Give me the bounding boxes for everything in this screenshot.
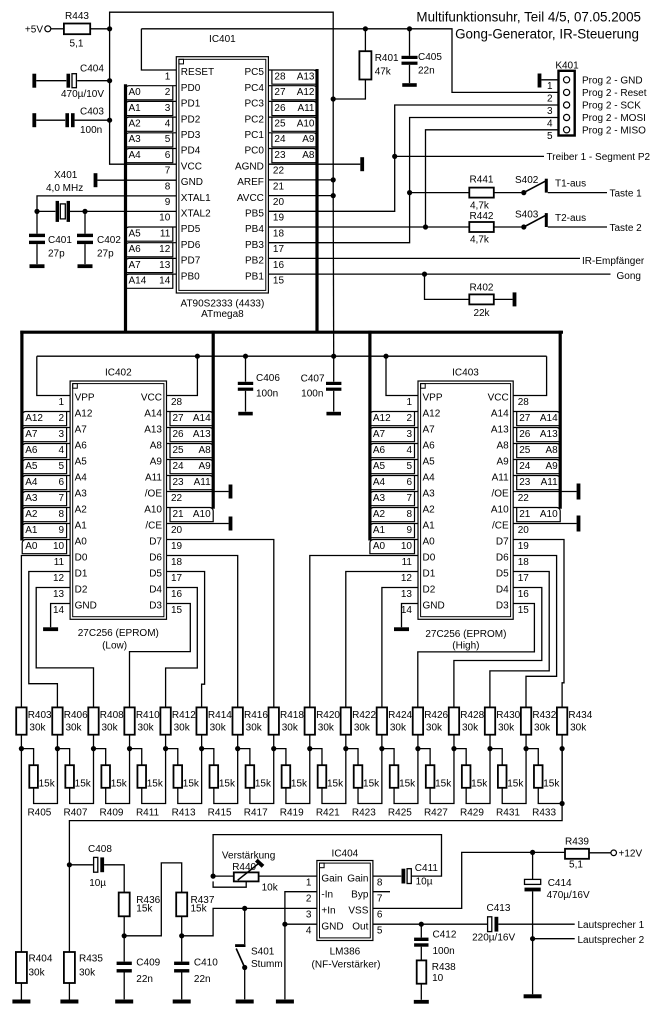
- svg-text:27: 27: [519, 413, 531, 424]
- svg-text:15: 15: [273, 276, 285, 287]
- svg-text:A8: A8: [496, 441, 509, 452]
- svg-text:A6: A6: [25, 445, 38, 456]
- pin 7 IC403 A3: [370, 489, 435, 506]
- IC body IC404: [317, 861, 373, 941]
- wire AVCC pin20: [268, 195, 333, 197]
- svg-text:2: 2: [59, 413, 65, 424]
- svg-text:6: 6: [59, 477, 65, 488]
- pin 27 IC403 A14: [491, 409, 560, 426]
- svg-text:19: 19: [171, 541, 183, 552]
- svg-text:3: 3: [59, 429, 65, 440]
- pin 6 IC404 VSS: [348, 905, 383, 920]
- svg-text:8: 8: [59, 509, 65, 520]
- bus bar IC402 left: [20, 331, 23, 541]
- switch S402 T1-aus: [515, 175, 586, 195]
- wire Taste 2: [548, 226, 607, 228]
- resistor R402: [425, 274, 517, 319]
- svg-text:A4: A4: [423, 473, 436, 484]
- resistor R423 15k: [346, 749, 382, 819]
- svg-text:R402: R402: [470, 282, 494, 293]
- pin 19 IC401 PB5: [245, 209, 284, 224]
- svg-text:25: 25: [519, 445, 531, 456]
- wire VCC IC403 pin28: [513, 356, 546, 395]
- pin 3 IC401 PD1: [126, 99, 201, 116]
- svg-text:15k: 15k: [147, 778, 164, 789]
- resistor R428 30k: [449, 707, 485, 748]
- svg-text:R410: R410: [136, 710, 160, 721]
- resistor R429 15k: [454, 749, 490, 819]
- svg-text:14: 14: [53, 605, 65, 616]
- resistor R412 30k: [160, 707, 196, 748]
- wire EPROM +5V rail: [37, 355, 547, 357]
- svg-text:15k: 15k: [75, 778, 92, 789]
- svg-text:D2: D2: [75, 585, 88, 596]
- svg-text:30k: 30k: [390, 722, 407, 733]
- svg-text:1: 1: [306, 878, 312, 889]
- svg-text:19: 19: [273, 213, 285, 224]
- capacitor C403: [32, 107, 109, 137]
- svg-text:Lautsprecher 2: Lautsprecher 2: [578, 935, 645, 946]
- svg-text:C404: C404: [80, 64, 104, 75]
- svg-text:A10: A10: [297, 119, 315, 130]
- wire D3 High to R426: [418, 604, 535, 708]
- svg-text:15k: 15k: [543, 778, 560, 789]
- wire PB5/SCK to K401 pin3: [268, 105, 558, 211]
- svg-text:4: 4: [165, 119, 171, 130]
- svg-text:R420: R420: [316, 710, 340, 721]
- svg-text:10: 10: [159, 213, 171, 224]
- pin 24 IC403 A9: [496, 457, 560, 474]
- svg-text:+5V: +5V: [25, 25, 43, 36]
- node ladder junction 16: [560, 746, 565, 751]
- svg-text:24: 24: [173, 461, 185, 472]
- svg-text:15: 15: [171, 605, 183, 616]
- resistor R413 15k: [166, 749, 202, 819]
- svg-text:A6: A6: [423, 441, 436, 452]
- svg-text:R413: R413: [172, 807, 196, 818]
- svg-text:A11: A11: [145, 473, 162, 484]
- svg-text:/OE: /OE: [145, 489, 163, 500]
- svg-text:C406: C406: [256, 373, 280, 384]
- svg-text:/CE: /CE: [145, 521, 162, 532]
- pin 21 IC401 AREF: [237, 177, 284, 192]
- node ladder junction 13: [451, 746, 456, 751]
- pin 11 IC403 D0: [402, 553, 436, 568]
- svg-text:24: 24: [519, 461, 531, 472]
- wire GND pin4: [285, 923, 317, 925]
- svg-text:PD1: PD1: [181, 99, 201, 110]
- svg-text:IR-Empfänger: IR-Empfänger: [582, 256, 645, 267]
- svg-text:A12: A12: [75, 409, 93, 420]
- svg-text:PB1: PB1: [245, 271, 264, 282]
- svg-text:C402: C402: [97, 235, 121, 246]
- resistor R421 15k: [310, 749, 346, 819]
- svg-text:R423: R423: [352, 807, 376, 818]
- pin 20 IC403 /CE: [492, 521, 529, 536]
- svg-text:A1: A1: [373, 525, 386, 536]
- pin 26 IC403 A13: [491, 425, 560, 442]
- wire +5V down to VCC pin7: [110, 29, 177, 164]
- resistor R406 30k: [52, 707, 88, 748]
- resistor R434 30k: [557, 707, 593, 748]
- svg-text:PC5: PC5: [244, 67, 264, 78]
- svg-text:A6: A6: [75, 441, 88, 452]
- resistor R405 15k: [21, 749, 57, 819]
- ground IC404 pins 2,4: [284, 924, 286, 999]
- svg-text:25: 25: [274, 119, 286, 130]
- svg-text:Gain: Gain: [321, 873, 342, 884]
- wire D6 Low to R416: [167, 556, 238, 708]
- svg-text:D1: D1: [423, 569, 436, 580]
- bus bar IC401 left (A0-A14): [124, 84, 127, 333]
- resistor R416 30k: [232, 707, 268, 748]
- pin 6 IC401 PD4: [126, 146, 201, 163]
- svg-text:VSS: VSS: [348, 905, 368, 916]
- svg-text:C401: C401: [48, 235, 72, 246]
- pin 15 IC401 PB1: [245, 271, 284, 286]
- svg-text:A14: A14: [144, 409, 162, 420]
- svg-text:30k: 30k: [498, 722, 515, 733]
- svg-text:AGND: AGND: [235, 161, 264, 172]
- svg-text:R406: R406: [64, 710, 88, 721]
- svg-text:5: 5: [59, 461, 65, 472]
- pin 22 IC403 /OE: [491, 489, 529, 504]
- resistor R426 30k: [413, 707, 449, 748]
- capacitor C413: [472, 903, 515, 944]
- svg-text:A14: A14: [129, 276, 147, 287]
- svg-text:A8: A8: [545, 445, 558, 456]
- svg-text:A0: A0: [129, 87, 142, 98]
- svg-text:Prog 2 - GND: Prog 2 - GND: [582, 75, 643, 86]
- svg-text:PC4: PC4: [244, 83, 264, 94]
- resistor R432 30k: [521, 707, 557, 748]
- pin 28 IC403 VCC: [488, 393, 530, 408]
- svg-text:13: 13: [401, 589, 413, 600]
- pin 10 IC402 A0: [22, 537, 87, 554]
- svg-text:A2: A2: [129, 119, 142, 130]
- svg-text:A12: A12: [373, 413, 391, 424]
- wire D7 Low to R418: [167, 540, 274, 708]
- node C408 tap: [67, 862, 72, 867]
- svg-text:A3: A3: [25, 493, 38, 504]
- svg-text:R417: R417: [244, 807, 268, 818]
- resistor R433 15k: [526, 749, 562, 819]
- svg-text:17: 17: [171, 573, 183, 584]
- svg-text:Multifunktionsuhr, Teil 4/5, 0: Multifunktionsuhr, Teil 4/5, 07.05.2005: [416, 10, 641, 25]
- IC body IC401: [176, 57, 268, 293]
- svg-text:4,0 MHz: 4,0 MHz: [46, 183, 83, 194]
- svg-text:10: 10: [432, 973, 444, 984]
- pin 12 IC401 PD6: [126, 240, 201, 257]
- svg-text:A6: A6: [373, 445, 386, 456]
- resistor R425 15k: [382, 749, 418, 819]
- svg-text:C412: C412: [433, 930, 457, 941]
- svg-text:7: 7: [59, 493, 65, 504]
- svg-text:C403: C403: [80, 107, 104, 118]
- svg-text:A14: A14: [540, 413, 558, 424]
- svg-text:R415: R415: [208, 807, 232, 818]
- node ladder junction 12: [415, 746, 420, 751]
- svg-text:220µ/16V: 220µ/16V: [472, 933, 515, 944]
- wire PB1 Gong: [268, 273, 610, 275]
- svg-text:30k: 30k: [462, 722, 479, 733]
- bus bar IC403 left: [368, 331, 371, 541]
- svg-text:26: 26: [274, 103, 286, 114]
- wire +5V down to EPROM rail: [332, 196, 335, 357]
- resistor R427 15k: [418, 749, 454, 819]
- svg-text:30k: 30k: [101, 722, 118, 733]
- svg-text:PD4: PD4: [181, 146, 201, 157]
- svg-text:D6: D6: [496, 553, 509, 564]
- wire D7 High to R434: [513, 540, 564, 708]
- svg-text:100n: 100n: [80, 125, 102, 136]
- svg-text:A8: A8: [302, 150, 315, 161]
- pin 10 IC401 XTAL2: [159, 209, 211, 224]
- node ladder junction 7: [235, 746, 240, 751]
- svg-text:15k: 15k: [111, 778, 128, 789]
- pin 22 IC402 /OE: [145, 489, 183, 504]
- svg-text:17: 17: [518, 573, 530, 584]
- wire D2 High to R424: [382, 588, 418, 708]
- svg-text:100n: 100n: [256, 389, 278, 400]
- svg-text:VPP: VPP: [75, 393, 95, 404]
- svg-text:R430: R430: [496, 710, 520, 721]
- svg-text:D5: D5: [496, 569, 509, 580]
- svg-text:A12: A12: [423, 409, 441, 420]
- svg-text:PD5: PD5: [181, 224, 201, 235]
- bus spine (address bus): [20, 331, 563, 334]
- svg-text:D7: D7: [149, 537, 162, 548]
- svg-text:22n: 22n: [136, 974, 153, 985]
- resistor R419 15k: [274, 749, 310, 819]
- svg-text:30k: 30k: [426, 722, 443, 733]
- svg-text:15k: 15k: [471, 778, 488, 789]
- svg-text:14: 14: [401, 605, 413, 616]
- node ladder junction 2: [55, 746, 60, 751]
- svg-text:16: 16: [171, 589, 183, 600]
- svg-text:13: 13: [159, 260, 171, 271]
- wire PB3/MOSI to K401 pin4: [268, 118, 558, 243]
- svg-text:D3: D3: [149, 601, 162, 612]
- svg-text:3: 3: [547, 106, 553, 117]
- svg-text:23: 23: [274, 150, 286, 161]
- svg-text:R425: R425: [388, 807, 412, 818]
- svg-text:30k: 30k: [282, 722, 299, 733]
- svg-text:A14: A14: [193, 413, 211, 424]
- svg-text:X401: X401: [54, 170, 78, 181]
- svg-text:IC403: IC403: [452, 368, 479, 379]
- svg-text:-In: -In: [321, 889, 333, 900]
- resistor R430 30k: [485, 707, 521, 748]
- svg-text:13: 13: [53, 589, 65, 600]
- node ladder junction 4: [127, 746, 132, 751]
- svg-text:D4: D4: [496, 585, 509, 596]
- svg-text:15: 15: [518, 605, 530, 616]
- node MOSI/Taste1 junction: [407, 190, 412, 195]
- pin 22 IC401 AGND: [235, 161, 284, 176]
- svg-text:22n: 22n: [418, 66, 435, 77]
- svg-text:R405: R405: [27, 807, 51, 818]
- pin 9 IC403 A1: [370, 521, 435, 538]
- node ladder junction 14: [487, 746, 492, 751]
- svg-text:PD0: PD0: [181, 83, 201, 94]
- resistor R436: [119, 893, 161, 936]
- svg-text:14: 14: [159, 276, 171, 287]
- bus bar IC403 right: [559, 331, 562, 509]
- resistor R441: [469, 174, 494, 211]
- svg-text:T2-aus: T2-aus: [555, 213, 586, 224]
- svg-text:R407: R407: [63, 807, 87, 818]
- node ladder junction 11: [379, 746, 384, 751]
- svg-text:11: 11: [54, 557, 65, 568]
- svg-text:Treiber 1 - Segment P2: Treiber 1 - Segment P2: [547, 152, 651, 163]
- svg-text:D7: D7: [496, 537, 509, 548]
- svg-text:Gong-Generator, IR-Steuerung: Gong-Generator, IR-Steuerung: [455, 27, 639, 42]
- svg-text:A11: A11: [541, 477, 558, 488]
- svg-text:R412: R412: [172, 710, 196, 721]
- svg-text:30k: 30k: [318, 722, 335, 733]
- resistor R420 30k: [305, 707, 341, 748]
- svg-text:23: 23: [519, 477, 531, 488]
- pin 4 IC403 A6: [370, 441, 435, 458]
- pin 8 IC404 Gain: [347, 873, 383, 888]
- wire R437 node to +In: [182, 908, 317, 935]
- IC body IC402: [70, 381, 166, 619]
- svg-text:470µ/16V: 470µ/16V: [547, 890, 590, 901]
- svg-text:PC1: PC1: [244, 130, 264, 141]
- wire C414 to ground: [532, 939, 534, 995]
- resistor R410 30k: [124, 707, 160, 748]
- svg-text:R443: R443: [65, 11, 89, 22]
- svg-text:8: 8: [406, 509, 412, 520]
- svg-text:15k: 15k: [507, 778, 524, 789]
- svg-text:26: 26: [173, 429, 185, 440]
- svg-text:8: 8: [165, 181, 171, 192]
- svg-text:7: 7: [165, 166, 171, 177]
- wire R436 node to R437 top: [124, 863, 182, 936]
- pin 25 IC402 A8: [150, 441, 213, 458]
- svg-text:C413: C413: [487, 903, 511, 914]
- wire XTAL1: [37, 196, 176, 212]
- svg-text:15k: 15k: [327, 778, 344, 789]
- svg-text:GND: GND: [181, 177, 203, 188]
- svg-text:15k: 15k: [219, 778, 236, 789]
- svg-text:R427: R427: [424, 807, 448, 818]
- svg-text:15k: 15k: [136, 904, 153, 915]
- capacitor C411: [373, 863, 439, 887]
- svg-text:Taste 2: Taste 2: [610, 223, 643, 234]
- svg-text:12: 12: [401, 573, 413, 584]
- wire D4 Low to R412: [166, 588, 198, 708]
- wire D0 High to R420: [310, 556, 418, 708]
- node Gong/R402 junction: [422, 272, 427, 277]
- svg-text:1: 1: [59, 397, 65, 408]
- svg-text:GND: GND: [75, 601, 97, 612]
- svg-text:PC0: PC0: [244, 146, 264, 157]
- svg-text:A12: A12: [25, 413, 43, 424]
- capacitor C409: [115, 936, 160, 1004]
- svg-text:D6: D6: [149, 553, 162, 564]
- svg-text:A10: A10: [540, 509, 558, 520]
- resistor R424 30k: [377, 707, 413, 748]
- svg-text:R411: R411: [136, 807, 160, 818]
- svg-text:5: 5: [547, 131, 553, 142]
- node DAC output junction: [560, 801, 565, 806]
- svg-text:21: 21: [273, 181, 285, 192]
- svg-text:A6: A6: [129, 244, 142, 255]
- svg-text:A2: A2: [25, 509, 38, 520]
- svg-text:C411: C411: [415, 863, 439, 874]
- svg-text:10µ: 10µ: [89, 878, 106, 889]
- svg-text:R409: R409: [100, 807, 124, 818]
- svg-text:C409: C409: [136, 958, 160, 969]
- svg-text:R438: R438: [432, 962, 456, 973]
- svg-text:A11: A11: [194, 477, 211, 488]
- wire AGND pin22: [268, 163, 360, 165]
- svg-text:D0: D0: [423, 553, 436, 564]
- svg-text:RESET: RESET: [181, 67, 214, 78]
- svg-text:7: 7: [406, 493, 412, 504]
- resistor R411 15k: [130, 749, 166, 819]
- svg-text:A13: A13: [540, 429, 558, 440]
- wire D0 Low to R403: [21, 556, 70, 708]
- pin 7 IC402 A3: [22, 489, 87, 506]
- resistor R439: [565, 836, 589, 870]
- svg-text:10µ: 10µ: [416, 876, 433, 887]
- svg-text:2: 2: [306, 894, 312, 905]
- wire VCC IC402 pin28: [167, 356, 198, 395]
- svg-text:21: 21: [173, 509, 185, 520]
- svg-text:A4: A4: [373, 477, 386, 488]
- svg-text:27p: 27p: [97, 249, 114, 260]
- svg-text:11: 11: [402, 557, 413, 568]
- svg-text:A7: A7: [423, 425, 436, 436]
- pin 2 IC403 A12: [370, 409, 441, 426]
- svg-text:R416: R416: [244, 710, 268, 721]
- pin 17 IC401 PB3: [245, 240, 284, 255]
- wire Lautsprecher 2: [533, 938, 575, 940]
- pin 13 IC403 D2: [401, 585, 436, 600]
- svg-text:10k: 10k: [262, 883, 279, 894]
- svg-text:R424: R424: [388, 710, 412, 721]
- resistor R404: [12, 749, 52, 1004]
- pin 3 IC403 A7: [370, 425, 435, 442]
- svg-text:23: 23: [173, 477, 185, 488]
- node R440 left junction: [211, 874, 216, 879]
- wire VPP IC402 pin1: [37, 356, 70, 395]
- svg-text:18: 18: [273, 228, 285, 239]
- svg-text:A9: A9: [198, 461, 211, 472]
- wire /OE IC402: [167, 491, 229, 493]
- svg-text:A10: A10: [144, 505, 162, 516]
- svg-text:R426: R426: [424, 710, 448, 721]
- svg-text:2: 2: [547, 94, 553, 105]
- pin 28 IC402 VCC: [141, 393, 183, 408]
- svg-text:PD6: PD6: [181, 240, 201, 251]
- resistor R401: [333, 26, 399, 99]
- svg-text:PD7: PD7: [181, 256, 201, 267]
- ground bar K401 pin1: [538, 74, 542, 88]
- node ladder junction 6: [199, 746, 204, 751]
- svg-text:Prog 2 - MOSI: Prog 2 - MOSI: [582, 113, 646, 124]
- capacitor C405: [402, 26, 443, 87]
- svg-text:XTAL1: XTAL1: [181, 193, 211, 204]
- svg-text:R441: R441: [470, 174, 494, 185]
- svg-text:R432: R432: [532, 710, 556, 721]
- svg-text:A11: A11: [492, 473, 509, 484]
- pin 6 IC403 A4: [370, 473, 435, 490]
- svg-text:A13: A13: [144, 425, 162, 436]
